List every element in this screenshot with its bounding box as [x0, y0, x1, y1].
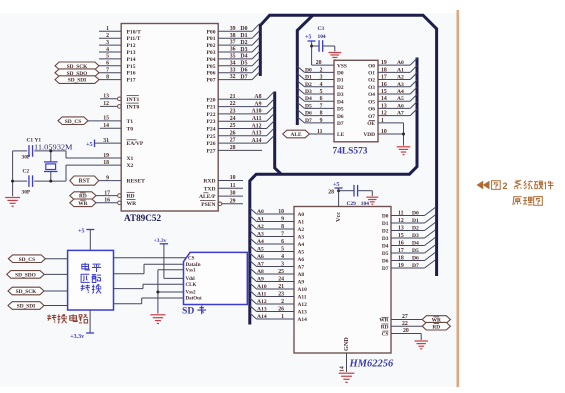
- svg-text:+5: +5: [78, 228, 84, 234]
- svg-text:2: 2: [503, 181, 508, 191]
- svg-text:2: 2: [320, 67, 323, 73]
- svg-text:A10: A10: [252, 109, 262, 115]
- svg-text:A9: A9: [254, 101, 261, 107]
- svg-text:P06: P06: [206, 71, 215, 77]
- svg-text:D4: D4: [412, 240, 419, 246]
- svg-text:D2: D2: [337, 85, 344, 91]
- svg-text:D6: D6: [412, 255, 419, 261]
- svg-text:O5: O5: [368, 99, 375, 105]
- svg-text:33: 33: [230, 67, 236, 73]
- svg-text:A13: A13: [257, 306, 267, 312]
- svg-text:D5: D5: [305, 103, 312, 109]
- svg-text:3: 3: [106, 40, 109, 46]
- svg-text:31: 31: [103, 138, 109, 144]
- svg-text:A7: A7: [397, 111, 404, 117]
- svg-text:A6: A6: [397, 103, 404, 109]
- svg-text:A10: A10: [298, 287, 308, 293]
- svg-text:A5: A5: [397, 96, 404, 102]
- svg-text:D3: D3: [240, 47, 247, 53]
- svg-text:D6: D6: [240, 68, 247, 74]
- svg-text:A12: A12: [252, 123, 262, 129]
- svg-text:WR: WR: [127, 201, 138, 207]
- svg-text:CLK: CLK: [186, 283, 197, 288]
- svg-text:11.05932M: 11.05932M: [34, 142, 73, 151]
- svg-text:8: 8: [106, 74, 109, 80]
- svg-text:D0: D0: [240, 26, 247, 32]
- svg-text:O7: O7: [368, 114, 375, 120]
- svg-text:A3: A3: [257, 231, 264, 237]
- svg-text:15: 15: [398, 233, 404, 239]
- svg-text:SD_SDI: SD_SDI: [68, 78, 87, 84]
- svg-text:A4: A4: [397, 89, 404, 95]
- svg-text:D7: D7: [412, 263, 419, 269]
- svg-text:6: 6: [281, 239, 284, 245]
- svg-text:O2: O2: [368, 78, 375, 84]
- svg-text:10: 10: [278, 209, 284, 215]
- svg-text:A3: A3: [298, 235, 305, 241]
- svg-text:A12: A12: [257, 299, 267, 305]
- svg-text:P22: P22: [206, 112, 215, 118]
- svg-text:D3: D3: [337, 92, 344, 98]
- svg-text:6: 6: [320, 96, 323, 102]
- svg-text:T1: T1: [127, 119, 134, 125]
- svg-text:22: 22: [402, 321, 408, 327]
- svg-text:A5: A5: [298, 250, 305, 256]
- svg-text:A6: A6: [257, 254, 264, 260]
- svg-text:P04: P04: [206, 57, 215, 63]
- svg-text:P12: P12: [127, 43, 136, 49]
- svg-text:C2: C2: [23, 169, 30, 175]
- svg-text:18: 18: [398, 255, 404, 261]
- svg-text:D1: D1: [337, 78, 344, 84]
- svg-text:74LS573: 74LS573: [333, 146, 368, 156]
- svg-text:38: 38: [230, 33, 236, 39]
- svg-text:14: 14: [381, 96, 387, 102]
- svg-text:19: 19: [381, 60, 387, 66]
- svg-text:D6: D6: [382, 259, 389, 265]
- svg-text:6: 6: [106, 61, 109, 67]
- svg-text:P24: P24: [206, 127, 215, 133]
- svg-text:P16: P16: [127, 71, 136, 77]
- svg-text:D6: D6: [337, 114, 344, 120]
- svg-text:A11: A11: [252, 116, 262, 122]
- svg-text:D3: D3: [382, 236, 389, 242]
- svg-text:26: 26: [278, 306, 284, 312]
- svg-text:A11: A11: [257, 291, 267, 297]
- svg-text:P10/T: P10/T: [127, 29, 142, 35]
- svg-text:23: 23: [230, 109, 236, 115]
- svg-text:O6: O6: [368, 107, 375, 113]
- svg-text:SD_SDO: SD_SDO: [15, 273, 36, 279]
- svg-text:P13: P13: [127, 50, 136, 56]
- svg-text:P21: P21: [206, 105, 215, 111]
- svg-text:27: 27: [230, 138, 236, 144]
- svg-text:A8: A8: [254, 94, 261, 100]
- svg-text:1: 1: [381, 118, 384, 124]
- svg-text:17: 17: [104, 190, 110, 196]
- svg-text:D7: D7: [382, 266, 389, 272]
- svg-text:P27: P27: [206, 148, 215, 154]
- svg-text:D4: D4: [382, 244, 389, 250]
- svg-text:D4: D4: [240, 54, 247, 60]
- svg-text:32: 32: [230, 74, 236, 80]
- svg-text:D2: D2: [240, 40, 247, 46]
- svg-text:A0: A0: [298, 212, 305, 218]
- svg-text:5: 5: [320, 89, 323, 95]
- svg-text:4: 4: [281, 254, 284, 260]
- svg-text:A12: A12: [298, 302, 308, 308]
- svg-text:AT89C52: AT89C52: [124, 213, 161, 223]
- svg-text:9: 9: [320, 118, 323, 124]
- svg-text:11: 11: [230, 183, 236, 189]
- svg-text:1: 1: [281, 314, 284, 320]
- svg-text:CS: CS: [382, 332, 389, 338]
- svg-text:D1: D1: [305, 75, 312, 81]
- svg-text:12: 12: [103, 101, 109, 107]
- svg-text:D7: D7: [240, 74, 247, 80]
- svg-text:D0: D0: [305, 67, 312, 73]
- svg-text:23: 23: [278, 291, 284, 297]
- svg-text:A0: A0: [397, 60, 404, 66]
- svg-text:ALE: ALE: [291, 132, 302, 138]
- svg-text:CS: CS: [188, 256, 195, 261]
- svg-text:4: 4: [320, 82, 323, 88]
- svg-text:X2: X2: [127, 163, 134, 169]
- svg-text:15: 15: [103, 116, 109, 122]
- svg-text:DatOut: DatOut: [186, 297, 202, 302]
- svg-text:A2: A2: [397, 75, 404, 81]
- svg-text:A6: A6: [298, 257, 305, 263]
- svg-text:D1: D1: [240, 33, 247, 39]
- svg-text:P07: P07: [206, 78, 215, 84]
- svg-text:7: 7: [320, 103, 323, 109]
- svg-text:Vss2: Vss2: [186, 291, 197, 296]
- svg-text:A9: A9: [257, 276, 264, 282]
- svg-text:16: 16: [398, 240, 404, 246]
- svg-text:+3.3v: +3.3v: [70, 334, 84, 340]
- svg-text:VDD: VDD: [363, 132, 375, 138]
- svg-text:9: 9: [281, 216, 284, 222]
- svg-text:P00: P00: [206, 29, 215, 35]
- svg-text:D5: D5: [240, 61, 247, 67]
- svg-text:A4: A4: [257, 239, 264, 245]
- svg-text:10: 10: [230, 175, 236, 181]
- svg-text:8: 8: [320, 111, 323, 117]
- svg-text:+5: +5: [305, 35, 311, 41]
- svg-text:RST: RST: [79, 179, 90, 185]
- svg-text:A8: A8: [298, 272, 305, 278]
- svg-text:D2: D2: [305, 82, 312, 88]
- svg-text:A7: A7: [298, 265, 305, 271]
- svg-text:RD: RD: [381, 324, 389, 330]
- svg-text:24: 24: [230, 116, 236, 122]
- svg-text:P01: P01: [206, 36, 215, 42]
- svg-text:24: 24: [278, 276, 284, 282]
- svg-text:Vcc: Vcc: [335, 212, 342, 222]
- svg-text:A4: A4: [298, 242, 305, 248]
- svg-text:X1: X1: [127, 156, 134, 162]
- svg-text:19: 19: [398, 263, 404, 269]
- svg-text:26: 26: [230, 130, 236, 136]
- svg-text:A11: A11: [298, 295, 307, 301]
- svg-text:D2: D2: [382, 229, 389, 235]
- svg-text:7: 7: [106, 68, 109, 74]
- svg-text:A13: A13: [298, 310, 308, 316]
- svg-text:D5: D5: [382, 251, 389, 257]
- svg-text:19: 19: [103, 153, 109, 159]
- svg-text:INT1: INT1: [127, 97, 140, 103]
- svg-text:16: 16: [381, 82, 387, 88]
- svg-text:D3: D3: [412, 233, 419, 239]
- svg-text:14: 14: [103, 123, 109, 129]
- svg-text:+3.3v: +3.3v: [154, 238, 167, 244]
- svg-text:5: 5: [281, 246, 284, 252]
- svg-text:11: 11: [317, 129, 323, 135]
- svg-text:A0: A0: [257, 209, 264, 215]
- svg-text:14: 14: [340, 366, 346, 372]
- svg-text:30P: 30P: [22, 189, 31, 195]
- svg-text:O3: O3: [368, 85, 375, 91]
- svg-text:SD_CS: SD_CS: [19, 257, 35, 263]
- svg-text:TXD: TXD: [204, 186, 216, 192]
- svg-text:9: 9: [106, 175, 109, 181]
- svg-text:RXD: RXD: [203, 179, 215, 185]
- svg-text:22: 22: [230, 101, 236, 107]
- svg-text:104: 104: [361, 201, 369, 207]
- svg-text:D0: D0: [337, 71, 344, 77]
- svg-text:C1: C1: [27, 137, 34, 143]
- svg-text:P02: P02: [206, 43, 215, 49]
- svg-text:36: 36: [230, 47, 236, 53]
- svg-text:A2: A2: [298, 227, 305, 233]
- svg-text:13: 13: [398, 225, 404, 231]
- svg-text:GND: GND: [343, 337, 350, 351]
- svg-text:13: 13: [103, 94, 109, 100]
- svg-text:10: 10: [381, 129, 387, 135]
- svg-text:P26: P26: [206, 141, 215, 147]
- svg-text:4: 4: [106, 47, 109, 53]
- svg-text:P15: P15: [127, 64, 136, 70]
- svg-text:P23: P23: [206, 119, 215, 125]
- svg-text:O4: O4: [368, 92, 375, 98]
- svg-text:P11/T: P11/T: [127, 36, 141, 42]
- svg-text:A5: A5: [257, 246, 264, 252]
- svg-text:7: 7: [281, 231, 284, 237]
- svg-text:D1: D1: [382, 221, 389, 227]
- svg-text:WR: WR: [78, 201, 87, 207]
- svg-text:17: 17: [381, 75, 387, 81]
- svg-text:EA/VP: EA/VP: [127, 141, 144, 147]
- svg-text:RD: RD: [127, 194, 135, 200]
- svg-text:A14: A14: [257, 314, 267, 320]
- svg-text:29: 29: [230, 198, 236, 204]
- svg-text:3: 3: [320, 75, 323, 81]
- svg-text:SD_CS: SD_CS: [65, 119, 81, 125]
- svg-text:A13: A13: [252, 131, 262, 137]
- svg-text:21: 21: [278, 284, 284, 290]
- svg-text:2: 2: [106, 33, 109, 39]
- svg-text:P17: P17: [127, 78, 136, 84]
- svg-text:Vss1: Vss1: [186, 268, 197, 273]
- svg-text:34: 34: [230, 60, 236, 66]
- svg-text:37: 37: [230, 40, 236, 46]
- svg-text:P25: P25: [206, 134, 215, 140]
- svg-text:16: 16: [104, 198, 110, 204]
- svg-text:2: 2: [281, 299, 284, 305]
- svg-text:A14: A14: [252, 138, 262, 144]
- svg-text:O0: O0: [368, 63, 375, 69]
- svg-text:15: 15: [381, 89, 387, 95]
- svg-text:13: 13: [381, 103, 387, 109]
- svg-text:A7: A7: [257, 261, 264, 267]
- svg-text:8: 8: [281, 224, 284, 230]
- svg-text:28: 28: [230, 145, 236, 151]
- svg-text:P05: P05: [206, 64, 215, 70]
- svg-text:D6: D6: [305, 111, 312, 117]
- svg-text:21: 21: [230, 94, 236, 100]
- svg-text:A2: A2: [257, 224, 264, 230]
- svg-text:+5: +5: [86, 142, 92, 148]
- svg-text:35: 35: [230, 54, 236, 60]
- svg-text:C29: C29: [347, 201, 357, 207]
- svg-text:RESET: RESET: [127, 179, 146, 185]
- svg-text:3: 3: [281, 261, 284, 267]
- svg-text:A1: A1: [397, 67, 404, 73]
- svg-text:P20: P20: [206, 97, 215, 103]
- svg-text:11: 11: [398, 210, 404, 216]
- svg-text:12: 12: [381, 111, 387, 117]
- svg-text:A10: A10: [257, 284, 267, 290]
- svg-text:D4: D4: [337, 99, 344, 105]
- svg-text:30: 30: [230, 191, 236, 197]
- svg-text:D0: D0: [412, 210, 419, 216]
- svg-text:D7: D7: [337, 121, 344, 127]
- svg-text:5: 5: [106, 54, 109, 60]
- svg-text:D4: D4: [305, 96, 312, 102]
- svg-text:O1: O1: [368, 71, 375, 77]
- svg-text:T0: T0: [127, 126, 134, 132]
- svg-text:D7: D7: [305, 118, 312, 124]
- svg-text:SD_SCK: SD_SCK: [16, 289, 37, 295]
- svg-text:A3: A3: [397, 82, 404, 88]
- svg-text:18: 18: [103, 160, 109, 166]
- svg-text:A1: A1: [298, 220, 305, 226]
- svg-text:DataIn: DataIn: [186, 263, 201, 268]
- svg-text:D5: D5: [337, 107, 344, 113]
- svg-text:104: 104: [318, 34, 326, 40]
- svg-text:LE: LE: [337, 132, 345, 138]
- svg-text:30P: 30P: [22, 155, 31, 161]
- svg-text:20: 20: [316, 60, 322, 66]
- svg-text:INT0: INT0: [127, 104, 140, 110]
- svg-text:39: 39: [230, 26, 236, 32]
- svg-text:D1: D1: [412, 218, 419, 224]
- svg-text:RD: RD: [432, 324, 440, 330]
- svg-text:25: 25: [278, 269, 284, 275]
- svg-text:SD_SDI: SD_SDI: [17, 304, 36, 310]
- svg-text:P14: P14: [127, 57, 136, 63]
- svg-text:18: 18: [381, 67, 387, 73]
- svg-text:12: 12: [398, 218, 404, 224]
- svg-text:A1: A1: [257, 216, 264, 222]
- svg-text:A8: A8: [257, 269, 264, 275]
- svg-text:OE: OE: [367, 121, 375, 127]
- svg-text:VSS: VSS: [337, 63, 347, 69]
- svg-text:C3: C3: [318, 26, 325, 32]
- svg-text:Vdd: Vdd: [186, 277, 195, 282]
- svg-text:+5: +5: [333, 182, 339, 188]
- svg-text:HM62256: HM62256: [349, 359, 395, 370]
- svg-text:D0: D0: [382, 214, 389, 220]
- svg-text:20: 20: [403, 328, 409, 334]
- svg-text:SD: SD: [182, 306, 194, 317]
- svg-text:27: 27: [402, 314, 408, 320]
- svg-text:WR: WR: [379, 318, 388, 324]
- svg-text:28: 28: [328, 190, 334, 196]
- svg-text:D5: D5: [412, 248, 419, 254]
- svg-text:1: 1: [106, 26, 109, 32]
- svg-text:17: 17: [398, 248, 404, 254]
- svg-text:D3: D3: [305, 89, 312, 95]
- svg-text:A14: A14: [298, 317, 308, 323]
- svg-text:P03: P03: [206, 50, 215, 56]
- svg-text:PSEN: PSEN: [201, 202, 215, 208]
- svg-text:ALE/P: ALE/P: [199, 194, 216, 200]
- svg-text:D2: D2: [412, 225, 419, 231]
- svg-text:25: 25: [230, 123, 236, 129]
- svg-text:A9: A9: [298, 280, 305, 286]
